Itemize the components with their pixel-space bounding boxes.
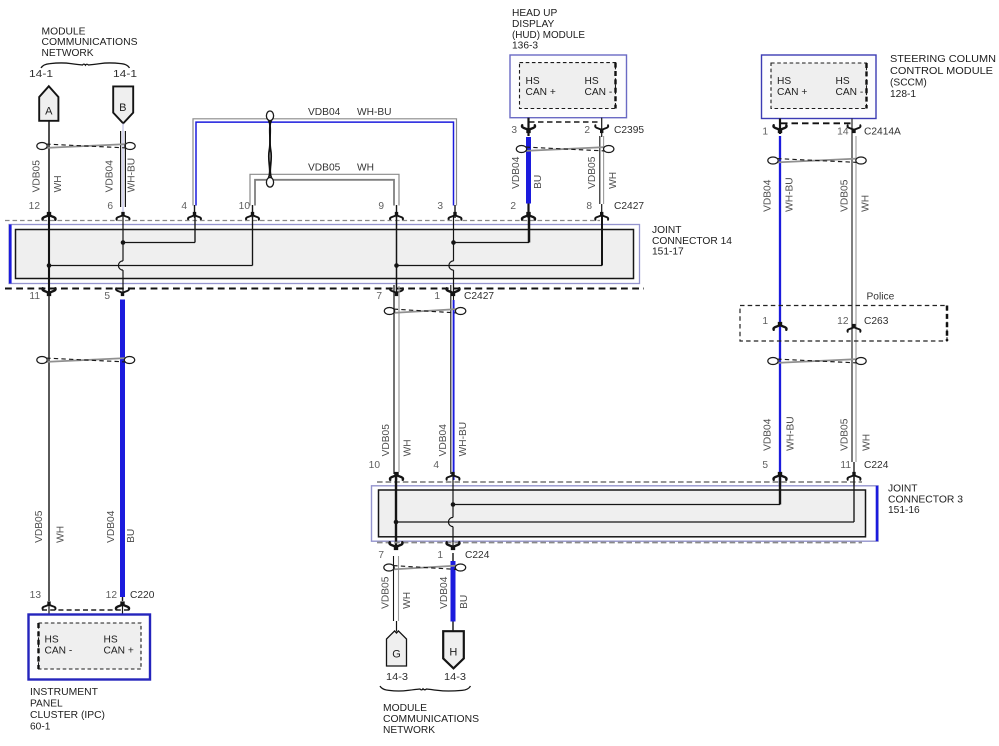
svg-text:12: 12 (106, 590, 118, 601)
svg-text:4: 4 (181, 201, 187, 212)
pin 5 arrow (JC3) (774, 472, 787, 480)
svg-text:1: 1 (762, 316, 768, 327)
svg-text:6: 6 (107, 201, 113, 212)
svg-text:HS: HS (526, 76, 540, 87)
svg-text:WH-BU: WH-BU (126, 158, 137, 193)
JC14 bottom bold dashed line (5, 288, 644, 290)
svg-text:VDB05: VDB05 (34, 510, 45, 543)
svg-text:WH: WH (53, 175, 64, 192)
pin 3 arrow (449, 212, 462, 220)
svg-text:INSTRUMENT: INSTRUMENT (30, 687, 98, 698)
JC14 internal bus pin12-pin10 (49, 216, 253, 266)
svg-text:G: G (392, 649, 401, 661)
svg-text:128-1: 128-1 (890, 89, 916, 100)
svg-text:HS: HS (104, 635, 118, 646)
svg-text:WH-BU: WH-BU (785, 416, 796, 451)
svg-text:BU: BU (126, 529, 137, 543)
JC3 junction dot pin4 wire (451, 502, 456, 507)
svg-text:11: 11 (29, 291, 40, 302)
svg-text:60-1: 60-1 (30, 722, 51, 733)
svg-text:3: 3 (437, 201, 443, 212)
IPC pin 12 arrow (116, 601, 129, 609)
wire VDB04 WH-BU (JC14 pin 1 to JC3 pin 4, black+blue pair) (451, 285, 454, 480)
IPC pin13 wire stub into box (48, 603, 50, 623)
svg-text:BU: BU (459, 595, 470, 609)
twisted pair symbol (G/H wires) (384, 564, 466, 571)
svg-text:VDB05: VDB05 (381, 424, 392, 457)
pin 2 arrow (522, 212, 535, 220)
svg-text:12: 12 (29, 201, 41, 212)
svg-text:CLUSTER (IPC): CLUSTER (IPC) (30, 710, 105, 721)
svg-text:Police: Police (867, 292, 895, 303)
pin 9 wire stub (396, 205, 398, 218)
svg-text:MODULE: MODULE (383, 703, 427, 714)
wire VDB05 WH (HUD to JC14 pin 8, double line) (600, 118, 604, 218)
JC14 inner box (16, 230, 634, 279)
svg-text:C2427: C2427 (464, 291, 494, 302)
police pin 12 arrow (848, 324, 861, 332)
svg-text:WH: WH (55, 526, 66, 543)
svg-text:VDB05: VDB05 (380, 576, 391, 609)
SCCM module box (762, 55, 877, 119)
svg-text:5: 5 (104, 291, 110, 302)
svg-text:B: B (119, 102, 126, 114)
bus VDB04 WH-BU gray line (outer U) (193, 119, 457, 206)
HUD module box (510, 55, 627, 118)
svg-text:C2427: C2427 (614, 201, 644, 212)
JC3 junction dot pin10 wire (394, 520, 399, 525)
JC3 pin 7 arrow (390, 542, 403, 550)
dashed connector line above IPC (42, 609, 130, 611)
pin 4 arrow (JC3) (447, 472, 460, 480)
svg-text:7: 7 (376, 291, 382, 302)
svg-text:1: 1 (762, 127, 768, 138)
IPC wire lower stub (122, 597, 124, 601)
JC14 outer box (9, 225, 640, 284)
svg-text:VDB04: VDB04 (104, 160, 115, 193)
JC14 pin 11 arrow (43, 288, 56, 296)
JC3 blue right edge accent (876, 486, 879, 541)
JC14 internal bus pin9-pin8 (397, 216, 603, 266)
pin 4 wire stub (194, 205, 196, 218)
twisted pair symbol (HUD wires) (516, 146, 614, 153)
JC3 inner box (379, 490, 866, 537)
HUD pin3 lower stub (527, 204, 529, 219)
bus VDB05 WH outer gray line (250, 174, 399, 205)
module communications network label (top left) (42, 26, 138, 59)
wire VDB04 WH-BU blue (SCCM to JC3 pin 5) (779, 136, 781, 489)
svg-text:WH-BU: WH-BU (784, 177, 795, 212)
pin 11 arrow (JC3) (848, 472, 861, 480)
svg-text:VDB05: VDB05 (308, 163, 341, 174)
svg-text:CAN +: CAN + (526, 87, 556, 98)
svg-text:COMMUNICATIONS: COMMUNICATIONS (42, 37, 138, 48)
svg-text:HEAD UP: HEAD UP (512, 8, 557, 19)
Police inline connector dashed box (740, 306, 947, 342)
JC14 pin 5 arrow (116, 288, 129, 296)
svg-text:HS: HS (585, 76, 599, 87)
SCCM module title (890, 54, 996, 100)
svg-text:DISPLAY: DISPLAY (512, 19, 554, 30)
svg-text:136-3: 136-3 (512, 41, 538, 52)
IPC pin12 wire stub into box (122, 603, 124, 623)
JC14 internal bus pin3-pin2 (454, 216, 530, 243)
twisted pair symbol (JC14-JC3 wires) (384, 308, 466, 315)
svg-text:HS: HS (777, 76, 791, 87)
svg-text:CONNECTOR 14: CONNECTOR 14 (652, 236, 732, 247)
svg-text:H: H (449, 647, 457, 659)
svg-text:A: A (45, 106, 53, 118)
JC14 pin 7 arrow (390, 288, 403, 296)
pin 10 arrow (JC3) (390, 472, 403, 480)
IPC title (30, 687, 105, 733)
JC3 internal bus pin10-pin11 (396, 476, 854, 522)
svg-text:STEERING COLUMN: STEERING COLUMN (890, 54, 996, 65)
wire VDB05 WH from connector A to JC14 pin 12 (48, 121, 50, 225)
JC3 internal wire pin4-pin1 (448, 476, 453, 550)
svg-text:CAN +: CAN + (777, 87, 807, 98)
svg-text:VDB04: VDB04 (762, 418, 773, 451)
JC14 internal bus pin6-pin4 (123, 216, 195, 243)
svg-text:10: 10 (239, 201, 251, 212)
svg-text:151-16: 151-16 (888, 505, 920, 516)
svg-text:WH-BU: WH-BU (458, 422, 469, 457)
svg-text:1: 1 (434, 291, 440, 302)
JC14 top dashed line (5, 220, 600, 222)
svg-text:CONNECTOR 3: CONNECTOR 3 (888, 495, 963, 506)
wire VDB04 WH-BU from connector B to JC14 pin 6 (double line with blue core) (121, 123, 126, 225)
svg-text:VDB04: VDB04 (106, 510, 117, 543)
svg-text:MODULE: MODULE (42, 26, 86, 37)
JC14 junction dot pin9 wire (394, 263, 399, 268)
svg-text:14-3: 14-3 (444, 672, 466, 683)
svg-text:8: 8 (586, 201, 592, 212)
instrument panel cluster box (29, 615, 151, 680)
wire VDB05 WH (JC14 pin 7 to JC3 pin 10, double line) (394, 285, 399, 480)
svg-text:C224: C224 (864, 460, 889, 471)
wire VDB05 WH (SCCM to JC3 pin 11, double line) (852, 119, 856, 491)
svg-text:12: 12 (837, 316, 849, 327)
pin 4 arrow (188, 212, 201, 220)
wire VDB04 BU thick blue (HUD to JC14 pin 2) (526, 137, 531, 204)
pin 10 wire stub (252, 205, 254, 218)
svg-text:VDB04: VDB04 (308, 107, 341, 118)
connector B (113, 86, 133, 123)
svg-text:(SCCM): (SCCM) (890, 78, 927, 89)
svg-text:WH: WH (861, 434, 872, 451)
svg-text:3: 3 (511, 125, 517, 136)
JC3 internal wire pin10-pin7 (395, 476, 397, 550)
svg-text:VDB05: VDB05 (587, 156, 598, 189)
svg-text:2: 2 (510, 201, 516, 212)
svg-text:HS: HS (836, 76, 850, 87)
JC14 internal wire pin12-pin11 (48, 216, 50, 296)
JC3 internal bus pin4-pin5 (453, 476, 780, 505)
JC14 blue left edge accent (9, 225, 12, 284)
svg-text:10: 10 (369, 460, 381, 471)
HUD pin 2 arrow (595, 125, 608, 133)
vertical twisted pair symbol between buses (266, 111, 273, 187)
svg-text:14-3: 14-3 (386, 672, 408, 683)
svg-text:VDB04: VDB04 (762, 179, 773, 212)
svg-text:JOINT: JOINT (888, 484, 917, 495)
bold dashed connector line under SCCM (781, 122, 853, 124)
svg-text:WH-BU: WH-BU (357, 107, 392, 118)
svg-text:13: 13 (30, 590, 42, 601)
svg-text:14-1: 14-1 (29, 69, 53, 80)
pin 10 arrow (246, 212, 259, 220)
SCCM pin 14 arrow (848, 125, 861, 133)
svg-text:14: 14 (837, 127, 849, 138)
svg-text:VDB05: VDB05 (839, 418, 850, 451)
JC14 internal wire pin6-pin5 (118, 216, 123, 296)
svg-text:WH: WH (357, 163, 374, 174)
IPC pin 13 arrow (43, 601, 56, 609)
pin 8 arrow (595, 212, 608, 220)
svg-text:C263: C263 (864, 316, 889, 327)
svg-text:WH: WH (860, 195, 871, 212)
Police box bold right edge (946, 306, 949, 342)
twisted pair symbol (SCCM wires lower) (768, 358, 866, 365)
svg-text:VDB04: VDB04 (438, 424, 449, 457)
wire VDB05 WH (JC3 pin 7 to connector G, double line) (394, 556, 399, 632)
JC3 title (888, 484, 963, 517)
twisted pair symbol (SCCM wires) (768, 157, 866, 164)
pin 6 arrow (117, 212, 130, 220)
svg-text:VDB04: VDB04 (511, 156, 522, 189)
pin 12 arrow (43, 212, 56, 220)
svg-text:(HUD) MODULE: (HUD) MODULE (512, 30, 585, 41)
svg-text:CAN -: CAN - (45, 645, 73, 656)
svg-text:2: 2 (584, 125, 590, 136)
svg-text:C220: C220 (130, 590, 155, 601)
JC14 internal wire pin3-pin1 (449, 216, 454, 296)
HUD pin3 wire stub (527, 118, 529, 136)
pin 3 wire stub (454, 205, 456, 218)
svg-text:CAN -: CAN - (836, 87, 864, 98)
JC3 top dashed line (377, 481, 862, 483)
JC14 pin 1 arrow (447, 288, 460, 296)
bus VDB04 WH-BU blue line (inner U) (196, 122, 454, 205)
JC14 junction dot pin6 wire (121, 240, 126, 245)
svg-text:HS: HS (45, 635, 59, 646)
connector H (443, 631, 464, 668)
svg-text:PANEL: PANEL (30, 699, 63, 710)
svg-text:VDB05: VDB05 (31, 160, 42, 193)
JC14 internal wire pin9-pin7 (396, 216, 398, 296)
svg-text:WH: WH (402, 439, 413, 456)
police pin 1 arrow (774, 322, 787, 330)
svg-text:14-1: 14-1 (113, 69, 137, 80)
svg-text:1: 1 (437, 550, 443, 561)
JC3 outer box (372, 486, 879, 541)
svg-text:BU: BU (533, 175, 544, 189)
svg-text:11: 11 (840, 460, 851, 471)
twisted pair symbol (A/B wires) (37, 143, 135, 150)
svg-text:CAN -: CAN - (585, 87, 613, 98)
wire VDB05 WH (JC14 pin 11 to IPC pin 13) (48, 290, 50, 601)
svg-text:JOINT: JOINT (652, 225, 681, 236)
module communications network label (bottom) (383, 703, 479, 736)
SCCM pin1 wire stub (779, 119, 781, 135)
svg-text:WH: WH (402, 592, 413, 609)
svg-text:5: 5 (762, 460, 768, 471)
dashed connector line under HUD (529, 121, 601, 123)
wire VDB04 BU thick blue (JC14 pin 5 to IPC pin 12) (120, 300, 125, 598)
twisted pair symbol (IPC wires) (37, 357, 135, 364)
svg-text:WH: WH (608, 172, 619, 189)
svg-text:COMMUNICATIONS: COMMUNICATIONS (383, 714, 479, 725)
connector G (387, 631, 407, 666)
HUD pin 3 arrow (522, 125, 535, 133)
svg-text:9: 9 (378, 201, 384, 212)
svg-text:VDB04: VDB04 (439, 576, 450, 609)
svg-text:CAN +: CAN + (104, 645, 134, 656)
wire VDB04 BU thick blue (JC3 pin 1 to connector H) (452, 553, 454, 631)
bus VDB05 WH inner gray line (255, 180, 394, 206)
svg-text:C2395: C2395 (614, 125, 644, 136)
brace under connectors G and H (380, 686, 471, 691)
svg-text:151-17: 151-17 (652, 247, 684, 258)
svg-text:C224: C224 (465, 550, 490, 561)
svg-text:NETWORK: NETWORK (383, 725, 435, 736)
JC3 bottom dashed line (377, 542, 862, 544)
JC14 title (652, 225, 732, 257)
svg-text:CONTROL MODULE: CONTROL MODULE (890, 66, 993, 77)
svg-text:C2414A: C2414A (864, 127, 901, 138)
svg-text:7: 7 (378, 550, 384, 561)
svg-text:NETWORK: NETWORK (42, 48, 94, 59)
connector A (39, 86, 58, 121)
SCCM pin 1 arrow (774, 125, 787, 133)
HUD module title (512, 8, 585, 51)
svg-text:VDB05: VDB05 (839, 179, 850, 212)
JC3 pin 1 arrow (447, 542, 460, 550)
brace over connectors A and B (41, 63, 130, 68)
JC14 junction dot pin12 wire (47, 263, 52, 268)
svg-text:4: 4 (433, 460, 439, 471)
pin 9 arrow (390, 212, 403, 220)
JC14 junction dot pin3 wire (451, 240, 456, 245)
